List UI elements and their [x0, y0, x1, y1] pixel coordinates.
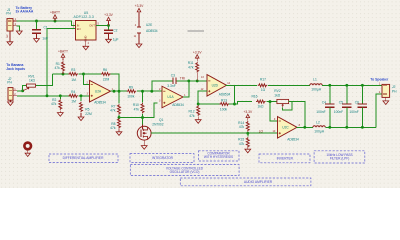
capacitor C2 [108, 25, 110, 30]
svg-text:47k: 47k [189, 114, 195, 118]
wire U2C output to L2 [297, 126, 313, 128]
svg-text:22M: 22M [85, 112, 92, 116]
svg-text:L2: L2 [316, 120, 320, 124]
svg-text:INTEGRATOR: INTEGRATOR [152, 156, 174, 160]
resistor R11 [196, 62, 199, 73]
svg-text:To Speaker: To Speaker [370, 78, 389, 82]
wire R16 to RV2 [266, 101, 277, 103]
wire feedback jog to R16 row [235, 102, 253, 104]
wire L1 to J3 pin1 [322, 84, 382, 86]
ground J1 mount [7, 42, 13, 46]
wire U2A output row [111, 90, 128, 92]
mounting hole to ground [24, 143, 31, 150]
capacitor C1 [36, 21, 38, 30]
svg-text:TRI: TRI [180, 77, 185, 81]
svg-text:LO: LO [259, 129, 264, 133]
svg-text:R13: R13 [221, 99, 227, 103]
svg-text:C4: C4 [322, 100, 326, 104]
resistor R12 [197, 105, 200, 116]
label box COMPARATOR WITH HYSTERESIS [198, 151, 239, 161]
svg-text:DIFFERENTIAL AMPLIFIER: DIFFERENTIAL AMPLIFIER [63, 156, 105, 160]
svg-text:+3.3V: +3.3V [193, 50, 203, 54]
svg-text:47k: 47k [110, 126, 116, 130]
junction C4 bottom [328, 126, 331, 129]
svg-text:Jack Inputs: Jack Inputs [6, 67, 25, 71]
op-amp U2C inverter [278, 117, 298, 139]
inductor L1 [310, 84, 322, 86]
svg-text:+3.3V: +3.3V [135, 4, 145, 8]
wire R6 to output [110, 74, 119, 91]
wire R9 to U1A inverting input [137, 90, 162, 92]
svg-text:AD8534: AD8534 [146, 29, 158, 33]
wire reference row to Q1 gate and U1A + input [119, 103, 158, 118]
svg-text:1M: 1M [71, 78, 76, 82]
svg-text:100nF: 100nF [349, 110, 358, 114]
svg-text:C3: C3 [171, 73, 175, 77]
wire J1 pin2 to ground [17, 26, 20, 31]
capacitor C3 [173, 78, 176, 84]
svg-text:U2D: U2D [212, 84, 219, 88]
wire RV1 to R3 row riser [36, 74, 52, 85]
wire J2 pin2 row to U2A non-inverting input [17, 95, 70, 97]
wire U2C inverting input [270, 102, 278, 121]
junction R12 R13 node [197, 103, 200, 106]
capacitor C4 [329, 85, 331, 104]
junction LO node at R14 R15 [246, 132, 249, 135]
svg-text:OUT: OUT [89, 24, 95, 28]
U5 GND pin to ground [85, 40, 87, 46]
svg-text:47k: 47k [188, 65, 194, 69]
resistor R1 [62, 61, 65, 72]
svg-text:100nF: 100nF [316, 110, 325, 114]
svg-text:1kΩ: 1kΩ [274, 93, 280, 97]
svg-text:47k: 47k [239, 142, 245, 146]
junction R7 R8 reference node [118, 115, 120, 117]
svg-text:AD8534: AD8534 [287, 138, 299, 142]
ground Q1 [141, 146, 147, 150]
resistor R15 [247, 133, 249, 136]
svg-text:R9: R9 [129, 86, 133, 90]
svg-text:100nF: 100nF [334, 110, 343, 114]
svg-text:47k: 47k [110, 109, 116, 113]
junction C5 top [345, 84, 348, 87]
ground R2 [57, 113, 63, 117]
wire U1A output riser to TRI row [183, 81, 189, 97]
wire U2D output [226, 84, 258, 86]
svg-text:R17: R17 [260, 77, 266, 81]
ground R8 [116, 132, 122, 136]
svg-text:3x AA/AAA: 3x AA/AAA [16, 10, 34, 14]
svg-text:FILTER (LPF): FILTER (LPF) [330, 157, 350, 161]
svg-text:100µH: 100µH [311, 87, 321, 91]
wire TRI row right segment to U2D inverting input [177, 80, 207, 82]
svg-text:PH: PH [7, 81, 12, 85]
wire RV2 wiper tie [283, 102, 293, 110]
svg-text:1kΩ: 1kΩ [258, 105, 264, 109]
svg-text:PH: PH [392, 89, 397, 93]
svg-text:IN: IN [77, 24, 80, 28]
resistor R16 [256, 100, 266, 103]
svg-text:1kΩ: 1kΩ [29, 79, 35, 83]
junction R1 bottom [62, 73, 65, 76]
junction output stub [113, 90, 116, 93]
junction C6 bottom [361, 126, 364, 129]
label box AUDIO AMPLIFIER [180, 178, 311, 186]
ground C1 [34, 39, 40, 43]
label box INTEGRATOR [130, 154, 194, 163]
svg-text:R16: R16 [251, 94, 257, 98]
junction C3 riser at U1A input [150, 90, 153, 93]
resistor R7 [118, 91, 120, 103]
svg-text:AD8534: AD8534 [94, 100, 106, 104]
junction C4 top [328, 84, 331, 87]
svg-text:100µH: 100µH [314, 129, 324, 133]
svg-text:1uF: 1uF [42, 37, 48, 41]
svg-text:47k: 47k [239, 125, 245, 129]
svg-text:C2: C2 [113, 28, 117, 32]
svg-text:47k: 47k [54, 66, 60, 70]
wire R4 to + input [79, 95, 90, 97]
svg-text:ADP122-3.3: ADP122-3.3 [74, 15, 94, 19]
junction EN riser on pin2 row [46, 94, 49, 97]
wire R17 to L1 [268, 84, 310, 86]
svg-text:Q1: Q1 [159, 118, 163, 122]
J1 mounting pin to ground [9, 31, 11, 42]
svg-text:R6: R6 [103, 68, 107, 72]
ground R12 [195, 120, 201, 124]
svg-text:47k: 47k [51, 102, 57, 106]
ground J3 [385, 97, 387, 101]
svg-text:2N7002: 2N7002 [152, 122, 163, 126]
resistor R6 feedback [84, 73, 102, 75]
svg-text:1M: 1M [71, 100, 76, 104]
junction C1 tap [35, 20, 38, 23]
junction feedback/R7 node [118, 90, 121, 93]
label box VOLTAGE CONTROLLED OSCILLATOR (VCO) [130, 165, 239, 176]
junction R10 top at output row [141, 90, 144, 93]
wire U5 OUT to +3.3V node [96, 24, 109, 26]
wire J2 pin1 to RV1 [17, 90, 23, 92]
svg-text:L1: L1 [313, 78, 317, 82]
svg-text:3.3nF: 3.3nF [167, 84, 175, 88]
wire bottom rail riser to J3 pin2 [376, 94, 382, 127]
svg-text:U2A: U2A [95, 89, 102, 93]
svg-text:OSCILLATOR (VCO): OSCILLATOR (VCO) [170, 170, 200, 174]
svg-text:WITH HYSTERESIS: WITH HYSTERESIS [204, 155, 233, 159]
resistor R13 hysteresis [198, 103, 219, 105]
svg-text:22M: 22M [103, 78, 110, 82]
junction R2 [59, 94, 62, 97]
resistor R10 [141, 103, 144, 114]
wire U5 EN to J2 pin2 net [47, 29, 76, 96]
svg-text:MP: MP [7, 34, 9, 38]
wire L2 to bottom rail [325, 126, 376, 128]
junction R11 bottom [196, 79, 199, 82]
no-connect gray dash [188, 30, 205, 32]
resistor R14 [247, 119, 249, 121]
ground J1 pin2 [16, 31, 22, 35]
svg-text:C1: C1 [44, 26, 48, 30]
svg-text:+3.3V: +3.3V [243, 110, 253, 114]
svg-text:+BATT: +BATT [50, 11, 60, 15]
junction TRI node [187, 79, 190, 82]
resistor R3 [68, 73, 78, 76]
resistor R2 [59, 96, 61, 99]
capacitor C6 [361, 85, 363, 104]
svg-text:1Ω: 1Ω [261, 88, 266, 92]
wire Q1 drain LO row to U2C + input [151, 132, 277, 134]
svg-text:R4: R4 [71, 90, 75, 94]
label box 10kHz LOW PASS FILTER (LPF) [314, 151, 365, 163]
label box INVERTER [259, 154, 310, 163]
svg-text:C6: C6 [355, 100, 359, 104]
svg-text:AD8534: AD8534 [219, 92, 231, 96]
ground R5 [78, 117, 84, 121]
wire U2D + input to R12 R13 node [198, 91, 207, 104]
svg-text:PH: PH [6, 12, 11, 16]
wire R3 input row [52, 73, 69, 75]
op-amp U1A integrator [158, 90, 163, 92]
ground R15 [245, 149, 251, 153]
power flag +BATT at U5 input [54, 20, 57, 23]
junction +3.3V node [107, 24, 110, 27]
wire TRI row left segment [152, 81, 173, 91]
svg-text:U2E: U2E [146, 23, 152, 27]
svg-text:AD8534: AD8534 [172, 103, 184, 107]
power flag +3.3V at regulator output [108, 22, 110, 26]
capacitor C5 [346, 85, 348, 104]
wire Q1 source to ground [143, 140, 145, 145]
svg-text:INVERTER: INVERTER [277, 157, 294, 161]
ground J2 [9, 100, 11, 102]
svg-text:EN: EN [77, 27, 81, 31]
ground C2 [106, 39, 112, 43]
ground U2E [136, 44, 142, 48]
svg-text:R3: R3 [71, 68, 75, 72]
wire R3 to U2A inverting input [79, 73, 84, 75]
op-amp U2A differential amplifier [90, 80, 111, 102]
resistor R5 [80, 96, 82, 101]
svg-text:U2C: U2C [282, 126, 289, 130]
op-amp U2D comparator [207, 75, 227, 97]
resistor R9 [127, 90, 137, 93]
svg-text:+3.3V: +3.3V [104, 13, 114, 17]
junction R10 column [141, 116, 144, 119]
junction RV2 feedback at output [303, 126, 306, 129]
resistor R17 [258, 84, 268, 87]
inductor L2 [313, 126, 325, 128]
svg-text:AUDIO AMPLIFIER: AUDIO AMPLIFIER [244, 180, 273, 184]
label box DIFFERENTIAL AMPLIFIER [49, 154, 118, 163]
svg-text:100k: 100k [220, 107, 228, 111]
junction C5 bottom [345, 126, 348, 129]
wire +BATT rail from J1 to U5 IN [17, 21, 76, 25]
svg-text:C5: C5 [339, 100, 343, 104]
svg-text:100k: 100k [127, 94, 135, 98]
grid dots [0, 0, 400, 188]
connector J3 [382, 84, 390, 97]
svg-text:47k: 47k [134, 107, 140, 111]
junction R5 [80, 94, 83, 97]
junction comparator output to feedback [233, 103, 236, 106]
junction C6 top [361, 84, 364, 87]
svg-text:+BATT: +BATT [58, 50, 68, 54]
junction U2C inverting riser [269, 100, 272, 103]
ground U5 [83, 46, 89, 50]
resistor R4 [68, 94, 78, 97]
wire output riser to feedback row [234, 85, 236, 104]
svg-text:U1A: U1A [167, 95, 174, 99]
resistor R8 [118, 118, 121, 129]
svg-text:1µF: 1µF [113, 38, 119, 42]
wire RV2 to U2C output node [289, 102, 305, 128]
